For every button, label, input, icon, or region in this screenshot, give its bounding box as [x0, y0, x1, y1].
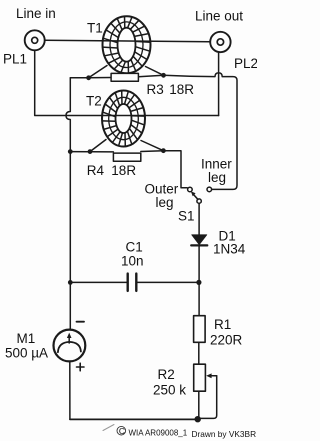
node T1 left: [86, 75, 91, 80]
wire pole down to D1: [198, 203, 200, 235]
svg-text:T2: T2: [86, 94, 102, 109]
node T2 left: [88, 149, 93, 154]
meter M1: [54, 330, 86, 362]
svg-text:Line out: Line out: [195, 9, 243, 24]
resistor R1: [194, 316, 206, 343]
label R3 18R: [147, 82, 195, 97]
wire PL1 down and through T2 to right: [35, 50, 219, 115]
node C1 left: [68, 280, 73, 285]
svg-text:Line in: Line in: [16, 6, 56, 21]
credit copyright symbol: [117, 426, 126, 436]
wire left rail with hop over T2 line: [66, 78, 70, 330]
wire PL1 to PL2 through T1: [45, 40, 211, 42]
label Inner leg: [201, 156, 232, 185]
meter plus sign: [77, 363, 85, 371]
switch S1 left contact: [188, 187, 193, 192]
scratch mark artifact: [103, 425, 114, 431]
transformer T1: [103, 16, 151, 73]
node C1 right: [196, 280, 201, 285]
wire outer leg to switch left contact: [163, 151, 187, 188]
svg-text:leg: leg: [208, 170, 226, 185]
wire T2 secondary right diagonal: [141, 141, 163, 151]
svg-text:PL2: PL2: [234, 56, 257, 71]
node T1 right: [161, 73, 166, 78]
wire R3 right to inner-leg rail with hop over PL2 drop: [164, 73, 238, 189]
connector PL1: [25, 30, 45, 50]
connector PL2: [210, 32, 230, 52]
svg-text:R3: R3: [147, 82, 164, 97]
label Outer leg: [145, 182, 179, 211]
wire R3 row: [89, 75, 164, 78]
svg-text:WIA AR09008_1: WIA AR09008_1: [129, 429, 188, 438]
svg-text:R2: R2: [158, 367, 175, 382]
svg-text:220R: 220R: [210, 333, 243, 348]
svg-text:10n: 10n: [121, 254, 144, 269]
svg-text:R1: R1: [214, 317, 231, 332]
svg-text:18R: 18R: [111, 163, 136, 178]
wire T1 left dot to left rail: [70, 77, 88, 79]
switch S1 pole contact: [197, 199, 201, 203]
wire meter bottom to bottom rail: [69, 361, 71, 419]
switch S1 right contact: [207, 187, 212, 192]
svg-text:S1: S1: [178, 209, 195, 224]
svg-text:M1: M1: [17, 331, 36, 346]
wire T1 secondary left diagonal: [89, 66, 107, 78]
wire D1 to C1 junction and R1: [198, 245, 200, 419]
svg-text:R4: R4: [87, 163, 105, 178]
wire C1 row: [70, 281, 199, 283]
svg-text:C: C: [119, 426, 125, 436]
svg-text:leg: leg: [156, 195, 174, 210]
wire R4 row: [70, 151, 163, 152]
switch S1 arm with arrowhead: [191, 191, 198, 199]
meter minus sign: [77, 321, 85, 323]
node T2 right: [161, 148, 166, 153]
svg-text:PL1: PL1: [3, 52, 27, 67]
node rail R4: [68, 149, 73, 154]
svg-text:T1: T1: [87, 21, 103, 36]
wire T2 secondary left diagonal: [90, 140, 106, 152]
transformer T2: [102, 91, 145, 147]
wire PL2 drop to T2 line: [218, 52, 220, 115]
resistor R4: [113, 153, 140, 161]
diode D1: [191, 235, 207, 246]
svg-text:C1: C1: [126, 240, 143, 255]
svg-text:Drawn by VK3BR: Drawn by VK3BR: [192, 429, 257, 439]
svg-text:18R: 18R: [169, 82, 194, 97]
svg-text:1N34: 1N34: [213, 242, 246, 257]
svg-text:250 k: 250 k: [153, 383, 186, 398]
wire T1 secondary right diagonal: [146, 67, 164, 76]
resistor R3: [111, 73, 138, 81]
svg-text:500 µA: 500 µA: [5, 346, 48, 361]
capacitor C1: [128, 274, 137, 291]
label R4 18R: [87, 163, 137, 178]
node bottom junction: [195, 416, 201, 422]
bottom wire: [70, 418, 198, 420]
resistor R2: [194, 364, 206, 391]
potentiometer R2 wiper arrow: [198, 373, 217, 418]
